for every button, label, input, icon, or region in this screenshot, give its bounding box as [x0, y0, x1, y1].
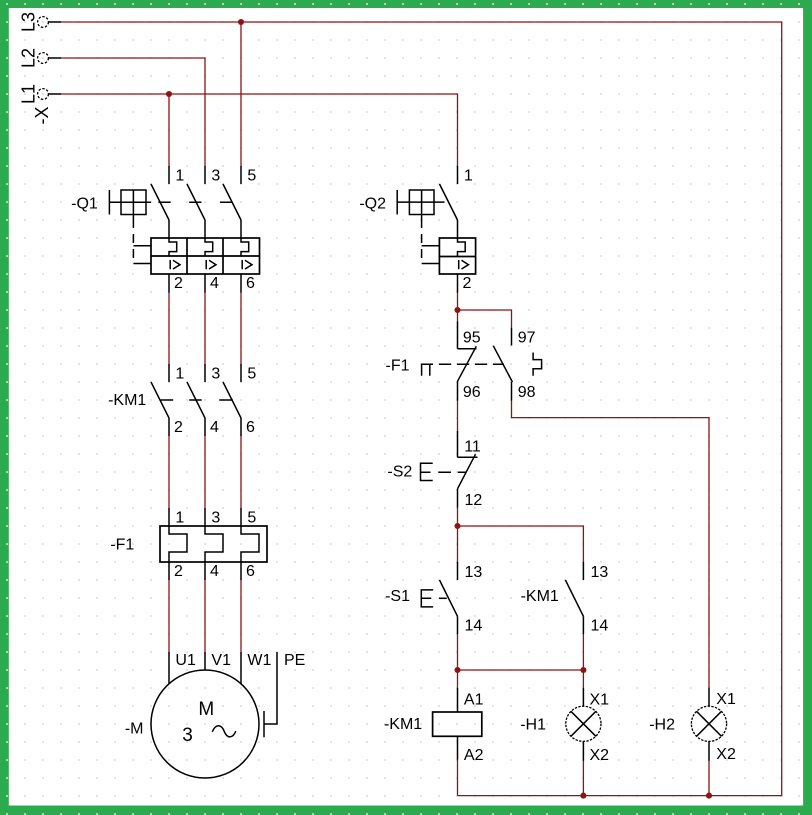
- pin number 13 of KM1: [591, 564, 609, 581]
- svg-text:13: 13: [591, 564, 609, 581]
- pin number 12: [465, 492, 483, 509]
- Q2 thermal release hook: [458, 238, 466, 257]
- svg-text:-S1: -S1: [385, 588, 410, 605]
- breaker -Q2 trip unit box: [439, 238, 475, 274]
- KM1 coil pin A1 lead: [457, 688, 459, 712]
- Q2 contact blade: [440, 184, 458, 238]
- breaker -Q2 operator square: [397, 190, 444, 219]
- S1 push button actuator: [421, 590, 433, 607]
- junction L1 / Q1 pole 1: [166, 91, 172, 97]
- junction H1 / bottom rail: [580, 793, 586, 799]
- label -KM1 auxiliary contact: [521, 588, 559, 605]
- Q1 pole pin 5 lead: [240, 166, 242, 184]
- breaker Q2 linkage ticks: [422, 246, 440, 264]
- terminal label A1: [464, 691, 484, 708]
- label -H2: [649, 717, 675, 734]
- svg-text:1: 1: [175, 167, 184, 184]
- pin number 6 of Q1: [246, 275, 255, 292]
- pin number 96: [463, 384, 481, 401]
- svg-text:11: 11: [464, 438, 481, 455]
- svg-text:A2: A2: [464, 747, 484, 764]
- svg-text:5: 5: [247, 365, 256, 382]
- pin number 6 of F1: [246, 563, 255, 580]
- svg-text:6: 6: [246, 563, 255, 580]
- KM1 aux NO contact blade: [565, 580, 583, 616]
- wire F1 to motor: [168, 580, 170, 652]
- KM1 pole pin 1 lead: [168, 364, 170, 382]
- H2 pin X1 lead: [708, 688, 710, 707]
- pin number 4 of KM1: [210, 419, 219, 436]
- terminal L2 of strip -X: [38, 53, 61, 64]
- breaker Q1 actuator dashes across blades: [158, 201, 232, 203]
- svg-text:2: 2: [174, 563, 183, 580]
- breaker Q1 linkage ticks: [133, 246, 151, 264]
- pin number 95: [463, 329, 481, 346]
- terminal label U1: [175, 652, 196, 669]
- wire Q2 out: [457, 293, 459, 322]
- svg-text:2: 2: [174, 275, 183, 292]
- KM1 pole pin 3 lead: [204, 364, 206, 382]
- S2 actuator link dashes: [438, 471, 465, 473]
- svg-text:2: 2: [463, 275, 472, 292]
- svg-text:-KM1: -KM1: [384, 716, 422, 733]
- svg-text:PE: PE: [284, 652, 305, 669]
- motor letter M: [198, 699, 214, 720]
- label -M: [125, 721, 144, 738]
- svg-text:98: 98: [518, 384, 536, 401]
- S1 pin 14 lead: [457, 616, 459, 634]
- svg-text:-KM1: -KM1: [108, 392, 146, 409]
- Q1 thermal release hook: [169, 238, 177, 256]
- indicator lamp -H1: [566, 706, 601, 741]
- svg-text:1: 1: [175, 510, 184, 527]
- KM1 pole pin 5 lead: [240, 364, 242, 382]
- KM1 pole pin 6 lead: [240, 418, 242, 436]
- F1 trip function hook symbol: [533, 353, 542, 376]
- pin number 2 of Q1: [174, 275, 183, 292]
- KM1 NO contact blade 3-4: [187, 382, 205, 418]
- svg-text:95: 95: [463, 329, 481, 346]
- label L2: [19, 48, 39, 68]
- S2 NC contact blade: [458, 454, 476, 489]
- Q2 magnetic release symbol I>: [459, 260, 469, 269]
- svg-text:3: 3: [211, 365, 220, 382]
- svg-text:-H2: -H2: [649, 717, 675, 734]
- F1 pin 96 lead: [457, 381, 459, 400]
- svg-text:-Q2: -Q2: [359, 196, 386, 213]
- svg-text:-S2: -S2: [387, 464, 412, 481]
- terminal label X1 of H2: [716, 691, 736, 708]
- label -KM1 main contacts: [108, 392, 146, 409]
- wire F1 to motor: [240, 580, 242, 652]
- Q1 pole contact blade 1-2: [151, 184, 169, 238]
- label L1: [19, 84, 39, 104]
- pin number 11: [464, 438, 481, 455]
- S2 pin 12 lead: [457, 489, 459, 508]
- wire F1 to motor: [204, 580, 206, 652]
- S1 actuator link dash: [439, 597, 447, 599]
- svg-text:L2: L2: [19, 48, 39, 68]
- label -S2: [387, 464, 412, 481]
- wire H1 to bottom rail: [582, 761, 584, 796]
- wire net L1 to Q2 input: [61, 94, 458, 166]
- wire A2 to bottom rail: [457, 760, 459, 796]
- pin number 13 of S1: [465, 564, 483, 581]
- svg-text:4: 4: [210, 563, 219, 580]
- wire net L2 to Q1 pole 2: [61, 58, 205, 166]
- terminal L3 of strip -X: [38, 17, 61, 28]
- label L3: [19, 12, 39, 32]
- wire KM1 to F1: [204, 436, 206, 508]
- svg-text:14: 14: [465, 618, 483, 635]
- motor lead U1: [168, 652, 170, 684]
- wire branch to KM1 aux 13: [458, 526, 584, 562]
- F1 pin 98 lead: [511, 382, 513, 401]
- svg-text:5: 5: [247, 167, 256, 184]
- svg-text:1: 1: [175, 365, 184, 382]
- Q2 pin 2 lead: [457, 274, 459, 293]
- pin number 2 of KM1: [174, 419, 183, 436]
- svg-text:V1: V1: [211, 652, 231, 669]
- KM1 coil pin A2 lead: [457, 736, 459, 760]
- wire H2 to bottom rail: [708, 761, 710, 796]
- wire S1 to coil A1: [457, 634, 459, 688]
- KM1 pole pin 2 lead: [168, 418, 170, 436]
- svg-text:6: 6: [246, 419, 255, 436]
- S1 NO contact blade: [440, 580, 458, 616]
- wire S2 to S1: [457, 508, 459, 562]
- label -H1: [520, 717, 546, 734]
- motor lead W1: [240, 652, 242, 684]
- S2 pin 11 lead and NC seat: [458, 431, 478, 458]
- wire KM1 to F1: [168, 436, 170, 508]
- pin number 5 of F1: [247, 510, 256, 527]
- F1 linkage dashed line: [439, 363, 504, 365]
- wire 98 to lamp H2: [512, 401, 710, 688]
- svg-text:14: 14: [591, 618, 609, 635]
- svg-text:X2: X2: [716, 746, 736, 763]
- pin number 2 of Q2: [463, 275, 472, 292]
- svg-text:W1: W1: [247, 652, 271, 669]
- svg-text:L1: L1: [19, 84, 39, 104]
- H1 pin X1 lead: [582, 688, 584, 706]
- Q1 pole pin 6 lead: [240, 274, 242, 293]
- terminal label W1: [247, 652, 271, 669]
- svg-text:13: 13: [465, 564, 483, 581]
- Q1 pole pin 3 lead: [204, 166, 206, 184]
- svg-text:A1: A1: [464, 691, 484, 708]
- pin number 3 of Q1: [211, 167, 220, 184]
- junction lamp H1 node: [580, 667, 586, 673]
- pin number 1 of F1: [175, 510, 184, 527]
- pin number 1 of KM1: [175, 365, 184, 382]
- KM1 NO contact blade 1-2: [151, 382, 169, 418]
- svg-text:96: 96: [463, 384, 481, 401]
- terminal label PE: [284, 652, 305, 669]
- pin number 14 of S1: [465, 618, 483, 635]
- svg-text:2: 2: [174, 419, 183, 436]
- label -Q2: [359, 196, 386, 213]
- wire Q1 to KM1: [240, 293, 242, 365]
- S1 pin 13 lead: [457, 562, 459, 580]
- svg-text:U1: U1: [175, 652, 196, 669]
- svg-text:3: 3: [211, 167, 220, 184]
- KM1 linkage dashes: [161, 399, 233, 401]
- KM1 aux pin 14 lead: [582, 616, 584, 634]
- breaker -Q1 operator square: [109, 190, 150, 219]
- svg-text:5: 5: [247, 510, 256, 527]
- Q1 pole contact blade 5-6: [223, 184, 241, 238]
- svg-text:6: 6: [246, 275, 255, 292]
- wire 96 to S2: [457, 401, 459, 431]
- Q1 pole contact blade 3-4: [187, 184, 205, 238]
- pin number 5 of KM1: [247, 365, 256, 382]
- H2 pin X2 lead: [708, 741, 710, 761]
- svg-text:-M: -M: [125, 721, 144, 738]
- Q1 pole pin 1 lead: [168, 166, 170, 184]
- pin number 2 of F1: [174, 563, 183, 580]
- svg-text:X1: X1: [590, 691, 610, 708]
- Q1 pole pin 2 lead: [168, 274, 170, 293]
- KM1 aux pin 13 lead: [582, 562, 584, 580]
- F1 pin 95 lead and NC seat: [458, 322, 477, 349]
- wire KM1 to F1: [240, 436, 242, 508]
- KM1 pole pin 4 lead: [204, 418, 206, 436]
- pin number 14 of KM1: [591, 618, 609, 635]
- motor numeral 3: [182, 725, 193, 746]
- terminal L1 of strip -X: [38, 89, 61, 100]
- Q1 pole pin 4 lead: [204, 274, 206, 293]
- motor PE lead: [264, 652, 277, 737]
- svg-text:4: 4: [210, 419, 219, 436]
- label -F1 overload relay: [110, 537, 134, 554]
- label -KM1 coil: [384, 716, 422, 733]
- svg-text:-F1: -F1: [386, 357, 410, 374]
- pin number 6 of KM1: [246, 419, 255, 436]
- KM1 NO contact blade 5-6: [223, 382, 241, 418]
- F1 pin 97 lead: [511, 328, 513, 345]
- breaker Q1 linkage dashed vertical: [132, 219, 134, 264]
- wire L3 down to Q1 pin 5: [240, 22, 242, 166]
- indicator lamp -H2: [691, 706, 726, 741]
- H1 pin X2 lead: [582, 741, 584, 761]
- wire branch to F1 pin 97: [458, 310, 512, 328]
- svg-text:3: 3: [182, 725, 193, 746]
- terminal label X1 of H1: [590, 691, 610, 708]
- wire L1 down to Q1 pin 1: [168, 94, 170, 166]
- motor AC tilde symbol: [212, 726, 236, 737]
- Q1 thermal release hook: [205, 238, 213, 256]
- F1 heater element 1-2: [169, 508, 187, 580]
- wire junction cross link: [458, 669, 584, 671]
- label -S1: [385, 588, 410, 605]
- terminal label X2 of H2: [716, 746, 736, 763]
- junction S2 out / holding branch: [454, 523, 460, 529]
- junction Q2 out / branch to 97: [454, 307, 460, 313]
- svg-text:-X: -X: [32, 107, 52, 125]
- F1 heater element 3-4: [205, 508, 223, 580]
- junction H2 / bottom rail: [706, 793, 712, 799]
- label -Q1: [71, 196, 98, 213]
- terminal label V1: [211, 652, 231, 669]
- Q1 magnetic release symbol I>: [170, 260, 180, 269]
- wire Q1 to KM1: [168, 293, 170, 365]
- pin number 98: [518, 384, 536, 401]
- Q1 thermal release hook: [241, 238, 249, 256]
- svg-text:X2: X2: [590, 747, 610, 764]
- F1 heater element 5-6: [241, 508, 259, 580]
- junction coil node: [454, 667, 460, 673]
- svg-text:M: M: [198, 699, 214, 720]
- pin number 3 of F1: [211, 510, 220, 527]
- svg-text:1: 1: [464, 167, 473, 184]
- pin number 4 of F1: [210, 563, 219, 580]
- pin number 97: [518, 329, 536, 346]
- pin number 3 of KM1: [211, 365, 220, 382]
- svg-text:L3: L3: [19, 12, 39, 32]
- Q1 magnetic release symbol I>: [242, 260, 252, 269]
- svg-text:-Q1: -Q1: [71, 196, 98, 213]
- label -F1 auxiliary contacts: [386, 357, 410, 374]
- pin number 1 of Q2: [464, 167, 473, 184]
- svg-text:-F1: -F1: [110, 537, 134, 554]
- Q2 pin 1 lead: [457, 166, 459, 184]
- pin number 1 of Q1: [175, 167, 184, 184]
- svg-text:X1: X1: [716, 691, 736, 708]
- pin number 4 of Q1: [210, 275, 219, 292]
- svg-text:4: 4: [210, 275, 219, 292]
- pin number 5 of Q1: [247, 167, 256, 184]
- terminal label A2: [464, 747, 484, 764]
- terminal strip designator -X: [32, 107, 52, 125]
- breaker Q2 linkage dashed vertical: [421, 219, 423, 264]
- Q1 magnetic release symbol I>: [206, 260, 216, 269]
- overload relay -F1 box: [160, 526, 267, 562]
- svg-text:3: 3: [211, 510, 220, 527]
- contactor coil -KM1: [433, 712, 482, 736]
- F1 NC contact blade 95-96: [458, 346, 477, 381]
- svg-text:12: 12: [465, 492, 483, 509]
- S2 push button actuator: [421, 463, 433, 480]
- junction L3 / Q1 pole 3: [238, 19, 244, 25]
- breaker -Q1 trip unit box: [151, 238, 260, 274]
- svg-text:97: 97: [518, 329, 536, 346]
- wire Q1 to KM1: [204, 293, 206, 365]
- motor -M circle: [151, 670, 259, 778]
- wire KM1 aux to lamp H1: [582, 634, 584, 688]
- F1 trip actuator symbol: [421, 364, 433, 376]
- F1 NO contact blade 97-98: [493, 346, 512, 382]
- motor lead V1: [204, 652, 206, 670]
- svg-text:-KM1: -KM1: [521, 588, 559, 605]
- svg-text:-H1: -H1: [520, 717, 546, 734]
- terminal label X2 of H1: [590, 747, 610, 764]
